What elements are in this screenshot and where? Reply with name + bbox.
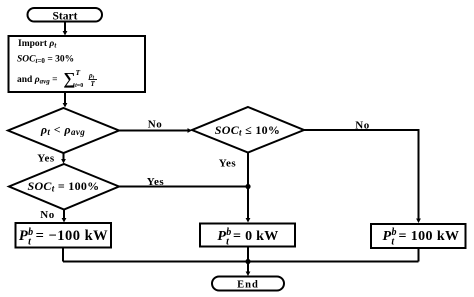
wire from box P=-100 down to bus — [62, 248, 64, 262]
decision 3: SOC_t <= 10% — [192, 107, 304, 153]
box P = 0 kW — [200, 224, 295, 248]
wire No from decision 1 to decision 3 — [119, 119, 192, 133]
svg-text:End: End — [237, 280, 259, 291]
svg-text:No: No — [40, 209, 54, 221]
wire No from decision 3 right and down to box P=100 — [304, 120, 421, 224]
wire No from decision 2 to box P=-100 — [40, 209, 66, 223]
svg-text:Yes: Yes — [37, 153, 55, 165]
box P = -100 kW — [16, 223, 112, 248]
junction dot on bus — [245, 259, 250, 264]
wire from import box to decision 1 — [63, 92, 68, 108]
wire Yes from decision 2 to middle vertical — [119, 176, 248, 188]
svg-text:SOCt=0 = 30%: SOCt=0 = 30% — [17, 55, 74, 66]
svg-text:T: T — [91, 80, 96, 88]
svg-text:SOCt = 100%: SOCt = 100% — [27, 179, 99, 194]
wire from box P=0 down to bus — [247, 247, 249, 262]
decision 2: SOC_t = 100% — [9, 164, 119, 210]
svg-text:No: No — [355, 120, 369, 132]
box P = 100 kW — [371, 224, 466, 248]
svg-text:SOCt ≤ 10%: SOCt ≤ 10% — [215, 123, 280, 138]
terminator End — [212, 277, 284, 291]
decision 1: rho_t < rho_avg — [8, 108, 119, 153]
bottom bus wire — [63, 261, 419, 263]
wire Yes from decision 1 to decision 2 — [37, 153, 66, 165]
terminator Start — [28, 8, 103, 23]
process box: import data — [9, 36, 146, 92]
svg-text:No: No — [148, 119, 162, 131]
svg-text:Import ρt: Import ρt — [18, 39, 57, 50]
svg-text:Yes: Yes — [147, 176, 165, 188]
svg-text:Yes: Yes — [219, 158, 237, 170]
wire from bus to End — [246, 262, 251, 277]
wire Yes from decision 3 down to box P=0 — [219, 153, 251, 223]
wire from Start to import box — [63, 21, 68, 36]
junction dot on Yes wire — [245, 184, 250, 189]
svg-text:Start: Start — [53, 11, 78, 23]
wire from box P=100 down to bus — [418, 248, 420, 262]
